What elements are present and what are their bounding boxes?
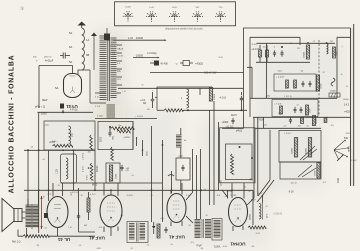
antenna xyxy=(78,22,87,29)
resistor R9 10000 xyxy=(209,88,216,102)
svg-text:+2000: +2000 xyxy=(222,121,229,124)
node pinout UAF41 xyxy=(146,7,157,22)
resistor R19 xyxy=(280,106,283,115)
transformer T2 xyxy=(127,222,148,243)
svg-text:L=Ω: L=Ω xyxy=(149,7,153,9)
capacitor C9 xyxy=(273,50,276,56)
svg-text:20000: 20000 xyxy=(97,165,99,172)
resistor R7 50000 potentiometer xyxy=(106,163,120,183)
svg-text:V0071: V0071 xyxy=(213,245,220,247)
resistor R28 xyxy=(87,192,90,220)
capacitor C13 xyxy=(294,107,297,113)
power block outer box xyxy=(222,28,351,128)
svg-text:·Ω Ω: ·Ω Ω xyxy=(255,233,260,235)
node ALLOCCHIO BACCHINI - FONALBA title xyxy=(9,55,16,194)
coil L4 xyxy=(326,42,328,54)
svg-text:+ Ω Ω +: + Ω Ω + xyxy=(50,141,58,143)
transformer T1 core xyxy=(108,35,110,101)
transformer T1 taps xyxy=(117,45,124,93)
svg-text:·5Ω2: ·5Ω2 xyxy=(345,133,351,135)
svg-text:4Ω: 4Ω xyxy=(143,102,146,105)
svg-text:·Ω: ·Ω xyxy=(265,206,268,208)
svg-text:·4Ω: ·4Ω xyxy=(87,152,91,154)
trimmer C3 W400 xyxy=(150,61,168,66)
transformer T3 xyxy=(195,219,212,238)
wire row1 bottom xyxy=(256,61,310,63)
wire arrow down x136 xyxy=(136,137,137,146)
svg-text:UAF 41: UAF 41 xyxy=(89,236,105,241)
svg-text:·10000: ·10000 xyxy=(135,36,144,40)
node label UCH41 xyxy=(230,242,246,247)
resistor R29 xyxy=(157,224,160,238)
svg-text:·1Ω: ·1Ω xyxy=(224,196,228,198)
svg-text:+4Ω2: +4Ω2 xyxy=(344,111,351,114)
svg-text:5A=A: 5A=A xyxy=(118,48,124,51)
band switch box H xyxy=(279,131,321,163)
svg-text:ALLOCCHIO BACCHINI - FONALBA: ALLOCCHIO BACCHINI - FONALBA xyxy=(9,55,16,194)
wire speaker top xyxy=(22,190,39,236)
capacitor C11 xyxy=(302,81,305,87)
svg-text:·Ω: ·Ω xyxy=(205,215,208,217)
wire x78 vertical xyxy=(79,188,96,232)
wire verticals x254 x258 xyxy=(254,117,258,198)
antenna secondary arrow xyxy=(91,33,97,71)
tube UAF41 second xyxy=(167,194,186,223)
svg-text:4×11μF: 4×11μF xyxy=(45,60,54,63)
wire vertical x48 xyxy=(48,150,50,190)
transformer T4 output xyxy=(26,204,39,229)
node labels right of box B xyxy=(83,152,90,180)
fuse F1 xyxy=(180,61,203,66)
node label pF xyxy=(267,213,269,218)
svg-text:pF(tr + 11: pF(tr + 11 xyxy=(35,106,46,109)
node dot right box F xyxy=(221,157,254,186)
svg-text:10000: 10000 xyxy=(316,118,318,124)
svg-text:·Ω·: ·Ω· xyxy=(188,225,191,227)
dashed rail xyxy=(318,40,320,115)
box E 2000 xyxy=(222,118,235,128)
resistor R1 xyxy=(49,141,73,147)
svg-text:2000: 2000 xyxy=(101,136,103,142)
resistor R17 10000 xyxy=(316,75,322,92)
svg-text:UAF 41: UAF 41 xyxy=(169,235,185,240)
node label 7000 xyxy=(257,119,264,122)
resistor R6 xyxy=(90,163,98,187)
svg-text:·4Ω 1: ·4Ω 1 xyxy=(277,71,283,73)
resistor R13 30445 xyxy=(304,42,310,59)
svg-text:3 1 B: 3 1 B xyxy=(95,106,101,108)
svg-text:17 ΩΩ·: 17 ΩΩ· xyxy=(230,195,237,197)
node pinout UCH41 xyxy=(192,7,203,22)
svg-text:5x4Ω: 5x4Ω xyxy=(125,7,131,9)
resistor R22 10000 xyxy=(312,116,318,126)
node legend caption xyxy=(165,27,203,31)
svg-text:·Ω: ·Ω xyxy=(306,126,309,128)
svg-text:·Ω·(: ·Ω·( xyxy=(190,242,194,244)
svg-text:Ref 1 Ω: Ref 1 Ω xyxy=(12,241,21,244)
svg-text:·Ω·: ·Ω· xyxy=(131,175,134,177)
svg-text:·4Ω: ·4Ω xyxy=(146,109,150,111)
wire vertical x95 xyxy=(95,150,99,190)
wire x162 vertical xyxy=(162,140,164,222)
svg-text:+(Ω: +(Ω xyxy=(125,170,129,172)
svg-text:10000: 10000 xyxy=(321,83,323,89)
resistor R11 xyxy=(259,45,262,62)
svg-text:2MΩ: 2MΩ xyxy=(337,178,340,183)
wire x151 vertical xyxy=(151,126,153,222)
svg-text:302: 302 xyxy=(71,132,74,137)
svg-text:·9·18: ·9·18 xyxy=(288,192,294,194)
svg-text:·Ω(: ·Ω( xyxy=(36,245,39,247)
svg-text:·Ω Ω: ·Ω Ω xyxy=(218,57,223,59)
node labels 142 442 xyxy=(344,103,351,114)
svg-text:· Ω: · Ω xyxy=(44,196,46,199)
oscillator box G xyxy=(220,128,256,183)
svg-text:1A: 1A xyxy=(86,38,89,42)
svg-text:1ΩΩ1: 1ΩΩ1 xyxy=(221,180,223,186)
node pinout UBC41 xyxy=(215,7,226,22)
wire x227 x232 xyxy=(228,183,233,199)
svg-text:30000: 30000 xyxy=(292,147,294,154)
node label 4 ohm xyxy=(219,97,226,100)
resistor box C xyxy=(98,122,133,150)
capacitor C16 xyxy=(77,213,80,219)
svg-text:W 400: W 400 xyxy=(161,63,169,66)
capacitor C17 xyxy=(164,227,167,233)
resistor R8 xyxy=(111,147,114,160)
resistor R25 30000 xyxy=(306,138,312,158)
wire bus y150 xyxy=(24,149,95,151)
capacitor C10 xyxy=(280,46,283,57)
svg-text:·4Ω 1: ·4Ω 1 xyxy=(96,248,102,250)
node label UAF 41 second xyxy=(169,235,185,240)
wire label 4.3 kOhm xyxy=(147,51,157,55)
svg-text:·Ω: ·Ω xyxy=(44,228,47,230)
svg-text:uPu1: uPu1 xyxy=(196,244,202,246)
svg-text:· Ω: · Ω xyxy=(243,187,246,189)
power block inner rails xyxy=(250,37,351,117)
svg-text:·10000: ·10000 xyxy=(135,54,144,58)
node labels between tubes xyxy=(71,191,87,227)
svg-text:3Ω: 3Ω xyxy=(297,48,300,50)
svg-text:·Ω: ·Ω xyxy=(175,64,178,66)
band switch box I xyxy=(280,162,321,179)
svg-text:3.1 B: 3.1 B xyxy=(118,56,124,58)
switch S1 mains xyxy=(150,71,217,75)
svg-text:+ 7 Ω 6: + 7 Ω 6 xyxy=(274,104,282,106)
svg-text:pΨΩ1: pΨΩ1 xyxy=(236,130,243,132)
node filament labels xyxy=(35,100,48,109)
svg-text:·Ω·: ·Ω· xyxy=(130,248,133,250)
resistor R12 xyxy=(266,45,269,62)
svg-text:10000: 10000 xyxy=(314,170,316,176)
svg-text:5A=A: 5A=A xyxy=(110,45,116,48)
resistor R23 700 xyxy=(324,117,327,122)
resistor R26 10000 xyxy=(314,163,320,179)
coil L2 xyxy=(69,126,74,144)
svg-text:4·03: 4·03 xyxy=(128,37,133,40)
svg-text:disposizione piedini visti d: disposizione piedini visti da sotto xyxy=(165,27,203,31)
node label UL 41 xyxy=(57,237,70,242)
node label Ref5 xyxy=(231,114,237,117)
sub box row3 xyxy=(272,100,318,117)
svg-text:3.1 B: 3.1 B xyxy=(110,53,116,55)
wire mains to block xyxy=(200,71,244,73)
wire UCH41 pins xyxy=(222,183,244,231)
svg-text:pF(tr·11: pF(tr·11 xyxy=(44,56,52,59)
svg-text:pF·1: pF·1 xyxy=(267,213,269,218)
capacitor C15 xyxy=(289,117,292,123)
wire bus y110 with resistor xyxy=(157,109,247,112)
selector hub xyxy=(334,140,349,160)
svg-text:B·07: B·07 xyxy=(258,193,263,195)
wire bus y112 xyxy=(38,109,94,114)
node label 5A xyxy=(55,86,59,90)
svg-text:Ω(0Ω1: Ω(0Ω1 xyxy=(250,213,252,220)
svg-text:+Ω: +Ω xyxy=(42,159,45,161)
svg-text:15000: 15000 xyxy=(330,91,336,93)
node label Ref 1 xyxy=(12,241,21,244)
wire x181 vertical xyxy=(180,128,182,190)
svg-text:NEW: NEW xyxy=(42,100,48,102)
wire diagonals to UCH41 xyxy=(247,180,274,205)
svg-text:·Ω: ·Ω xyxy=(248,191,251,193)
wire x171 x174 xyxy=(168,171,174,193)
svg-text:4 3 KΩg: 4 3 KΩg xyxy=(147,51,157,55)
svg-text:· ΩΩ: · ΩΩ xyxy=(262,125,267,127)
wire arrow top coil xyxy=(251,195,263,202)
svg-text:· Ω·: · Ω· xyxy=(78,245,82,247)
svg-text:+ ΩΩ: + ΩΩ xyxy=(265,96,271,98)
svg-text:4 Ω: 4 Ω xyxy=(278,113,282,115)
svg-text:·4Ω ·Ω: ·4Ω ·Ω xyxy=(290,183,297,185)
svg-text:·4 Ω: ·4 Ω xyxy=(98,227,103,229)
svg-text:B·07: B·07 xyxy=(251,200,256,202)
svg-text:· 1Ω·: · 1Ω· xyxy=(250,246,255,248)
annotation red line xyxy=(40,196,48,229)
node label grey xyxy=(272,213,283,216)
capacitor C7 xyxy=(143,92,157,108)
svg-text:5A: 5A xyxy=(69,60,72,64)
resistor R21 1500 xyxy=(301,117,304,123)
node label UY41 xyxy=(66,104,78,109)
svg-text:+(ΩΩΩ: +(ΩΩΩ xyxy=(123,137,130,139)
wire UY41 right to T1 xyxy=(90,70,106,103)
coil L6 oscillator xyxy=(259,203,263,220)
wire UAF41-2 pins and diagonals xyxy=(171,183,193,226)
svg-text:4 P Ω(t: 4 P Ω(t xyxy=(70,109,78,112)
wire y128 xyxy=(256,127,322,129)
switch wiper diagonals xyxy=(300,146,317,160)
svg-text:+Ω·: +Ω· xyxy=(203,189,207,191)
resistor R15 xyxy=(286,80,289,89)
resistor R30 xyxy=(248,226,266,229)
trimmer C4 xyxy=(60,104,64,109)
svg-text:150Ω: 150Ω xyxy=(116,173,118,179)
transformer T1 winding primary xyxy=(100,36,107,100)
wire bus y118 xyxy=(95,118,157,120)
capacitor C5 xyxy=(108,126,114,140)
resistor R5 xyxy=(90,135,93,149)
svg-text:5A: 5A xyxy=(55,86,59,90)
svg-text:·Ω Ω·(: ·Ω Ω·( xyxy=(251,44,257,46)
node labels near UL41 top xyxy=(44,194,53,200)
node page number 3 xyxy=(20,6,25,11)
svg-text:+ Ω Ω Ω: + Ω Ω Ω xyxy=(135,116,143,118)
wire UY41 top xyxy=(39,66,90,75)
svg-text:·Ω(: ·Ω( xyxy=(30,147,33,149)
svg-text:·Ω·: ·Ω· xyxy=(57,185,60,187)
svg-text:10000: 10000 xyxy=(214,93,216,100)
svg-text:L1=2: L1=2 xyxy=(352,160,358,162)
loudspeaker xyxy=(2,199,22,232)
coil L1 antenna coil xyxy=(69,28,89,70)
wire to chassis with label 10000 xyxy=(113,36,167,41)
svg-text:+Ω(: +Ω( xyxy=(160,218,164,220)
sub box row2 xyxy=(274,74,316,91)
svg-text:0.5%: 0.5% xyxy=(87,175,89,180)
tube UCH41 xyxy=(229,198,248,227)
resistor R14 1500 xyxy=(333,47,339,58)
coil L5 xyxy=(331,78,335,86)
svg-text:5A: 5A xyxy=(69,31,72,35)
node label 0.01 right of UCH41 xyxy=(250,213,252,220)
capacitor C12 xyxy=(309,81,312,87)
resistor R2 box B xyxy=(56,154,77,183)
svg-text:·15000: ·15000 xyxy=(342,99,350,101)
svg-text:· Ω: · Ω xyxy=(312,41,315,43)
resistor R18 15000 xyxy=(329,91,340,98)
svg-text:Ref 5: Ref 5 xyxy=(231,114,237,117)
svg-text:·Ω·: ·Ω· xyxy=(296,105,299,107)
svg-text:·Ω·: ·Ω· xyxy=(340,74,343,76)
wire vertical x270 xyxy=(269,130,271,180)
node label 2 M ohm xyxy=(337,178,340,183)
node pinout UY41 xyxy=(123,7,134,22)
svg-text:· Ω: · Ω xyxy=(345,86,348,88)
transformer T3 secondary box xyxy=(212,219,222,241)
svg-text:+ Ω 0.1: + Ω 0.1 xyxy=(83,152,85,160)
resistor R16 xyxy=(294,80,297,89)
wire vertical x38 xyxy=(38,112,40,233)
svg-text:ΩMC1: ΩMC1 xyxy=(349,145,351,152)
oscillator box F xyxy=(226,144,253,180)
svg-text:+ Ω: + Ω xyxy=(122,91,126,93)
svg-text:4,Ω 3: 4,Ω 3 xyxy=(90,194,96,196)
wire x192 x196 x200 xyxy=(193,149,201,219)
svg-text:+4 Ω %: +4 Ω % xyxy=(252,49,260,51)
diode D1 xyxy=(152,222,156,234)
svg-text:1,Ω: 1,Ω xyxy=(68,227,72,229)
svg-text:14 2: 14 2 xyxy=(344,103,350,107)
trimmer C2 xyxy=(104,28,110,41)
svg-text:·Ω: ·Ω xyxy=(322,72,325,74)
wire vertical x28 xyxy=(27,149,29,207)
wire UAF41 pins xyxy=(104,183,118,236)
svg-text:·Ω·: ·Ω· xyxy=(170,244,173,246)
node label +4ohm xyxy=(252,49,260,51)
svg-text:+ Ω 2 Ω: + Ω 2 Ω xyxy=(70,192,78,194)
svg-text:Ω0Ω: Ω0Ω xyxy=(147,151,149,156)
svg-text:E=Ω: E=Ω xyxy=(172,7,177,9)
box J small xyxy=(176,156,190,181)
wire x142 xyxy=(142,140,149,156)
svg-text:4 Ω %: 4 Ω % xyxy=(83,166,85,172)
resistor R27 bottom xyxy=(18,230,95,238)
svg-text:Ta:: Ta: xyxy=(184,140,187,142)
oscillator box D xyxy=(157,87,212,110)
node label +1ohm xyxy=(140,99,145,102)
transformer T1 lower winding xyxy=(107,105,116,117)
svg-text:1 Ω 1 Ω: 1 Ω 1 Ω xyxy=(284,96,292,98)
capacitor C8 xyxy=(240,92,243,110)
transformer T1 winding secondary xyxy=(111,38,117,97)
svg-text:+Ω·: +Ω· xyxy=(283,126,287,128)
node pinout UL41 xyxy=(169,7,180,22)
svg-text:1 Ω Ω 7: 1 Ω Ω 7 xyxy=(284,133,292,135)
svg-text:UL 41: UL 41 xyxy=(57,237,70,242)
svg-text:· 0.00143: · 0.00143 xyxy=(272,213,283,216)
resistor R20 1500 xyxy=(306,105,312,115)
tube UL41 xyxy=(47,197,68,228)
wire UL41 pins xyxy=(49,183,63,236)
node label +918 xyxy=(288,192,294,194)
wire bus y88 xyxy=(118,88,244,95)
wire bottom right verticals xyxy=(253,190,263,225)
svg-text:·Ω Ω·: ·Ω Ω· xyxy=(222,246,228,248)
svg-text:532: 532 xyxy=(344,137,349,140)
svg-text:4B: 4B xyxy=(86,53,89,57)
svg-text:· Ω ·: · Ω · xyxy=(146,245,151,247)
wire verticals x209 x214 xyxy=(210,101,215,205)
node legend box: valve pin layouts xyxy=(115,2,236,26)
svg-text:4 ΩΩ(: 4 ΩΩ( xyxy=(97,116,103,118)
wire box C right xyxy=(132,122,133,150)
resistor R4 xyxy=(111,125,134,130)
svg-text:6A: 6A xyxy=(69,45,72,49)
resistor R10 xyxy=(231,154,234,174)
tube UY41 xyxy=(64,74,82,98)
svg-text:4 Ω: 4 Ω xyxy=(186,195,190,197)
svg-text:·4 Ω: ·4 Ω xyxy=(297,126,302,128)
svg-text:UCH41: UCH41 xyxy=(230,242,246,247)
svg-text:1.25: 1.25 xyxy=(56,169,59,174)
node labels selector xyxy=(344,137,357,162)
wire vertical x218 xyxy=(218,122,220,190)
resistor R24 30000 xyxy=(292,138,298,158)
resistor box A xyxy=(44,121,95,150)
node labels T3 xyxy=(196,244,221,247)
svg-text:Ω·(: Ω·( xyxy=(263,47,266,49)
svg-text:+4ΩΩΩ: +4ΩΩΩ xyxy=(195,63,203,66)
svg-text:+7Ω: +7Ω xyxy=(249,180,254,182)
svg-text:+ Ω Ω: + Ω Ω xyxy=(226,191,232,193)
svg-text:+ΩΩ: +ΩΩ xyxy=(44,125,49,127)
wire x73 vertical xyxy=(73,149,75,190)
resistor R3 xyxy=(117,130,130,133)
wire vertical x263 xyxy=(263,117,265,128)
svg-text:·Ω(: ·Ω( xyxy=(200,248,203,250)
svg-text:·Ω(: ·Ω( xyxy=(120,215,123,217)
svg-text:+1 Ω: +1 Ω xyxy=(140,99,145,102)
switch wiper arrow xyxy=(337,155,344,162)
wire bus y183 xyxy=(61,182,163,184)
svg-text:·4 Ω Ω: ·4 Ω Ω xyxy=(219,97,226,100)
coil L3 xyxy=(181,89,189,108)
svg-text:+ 1 Ω 17: + 1 Ω 17 xyxy=(276,77,285,79)
capacitor C6 xyxy=(120,165,129,171)
svg-text:·Ya·: ·Ya· xyxy=(118,125,122,127)
